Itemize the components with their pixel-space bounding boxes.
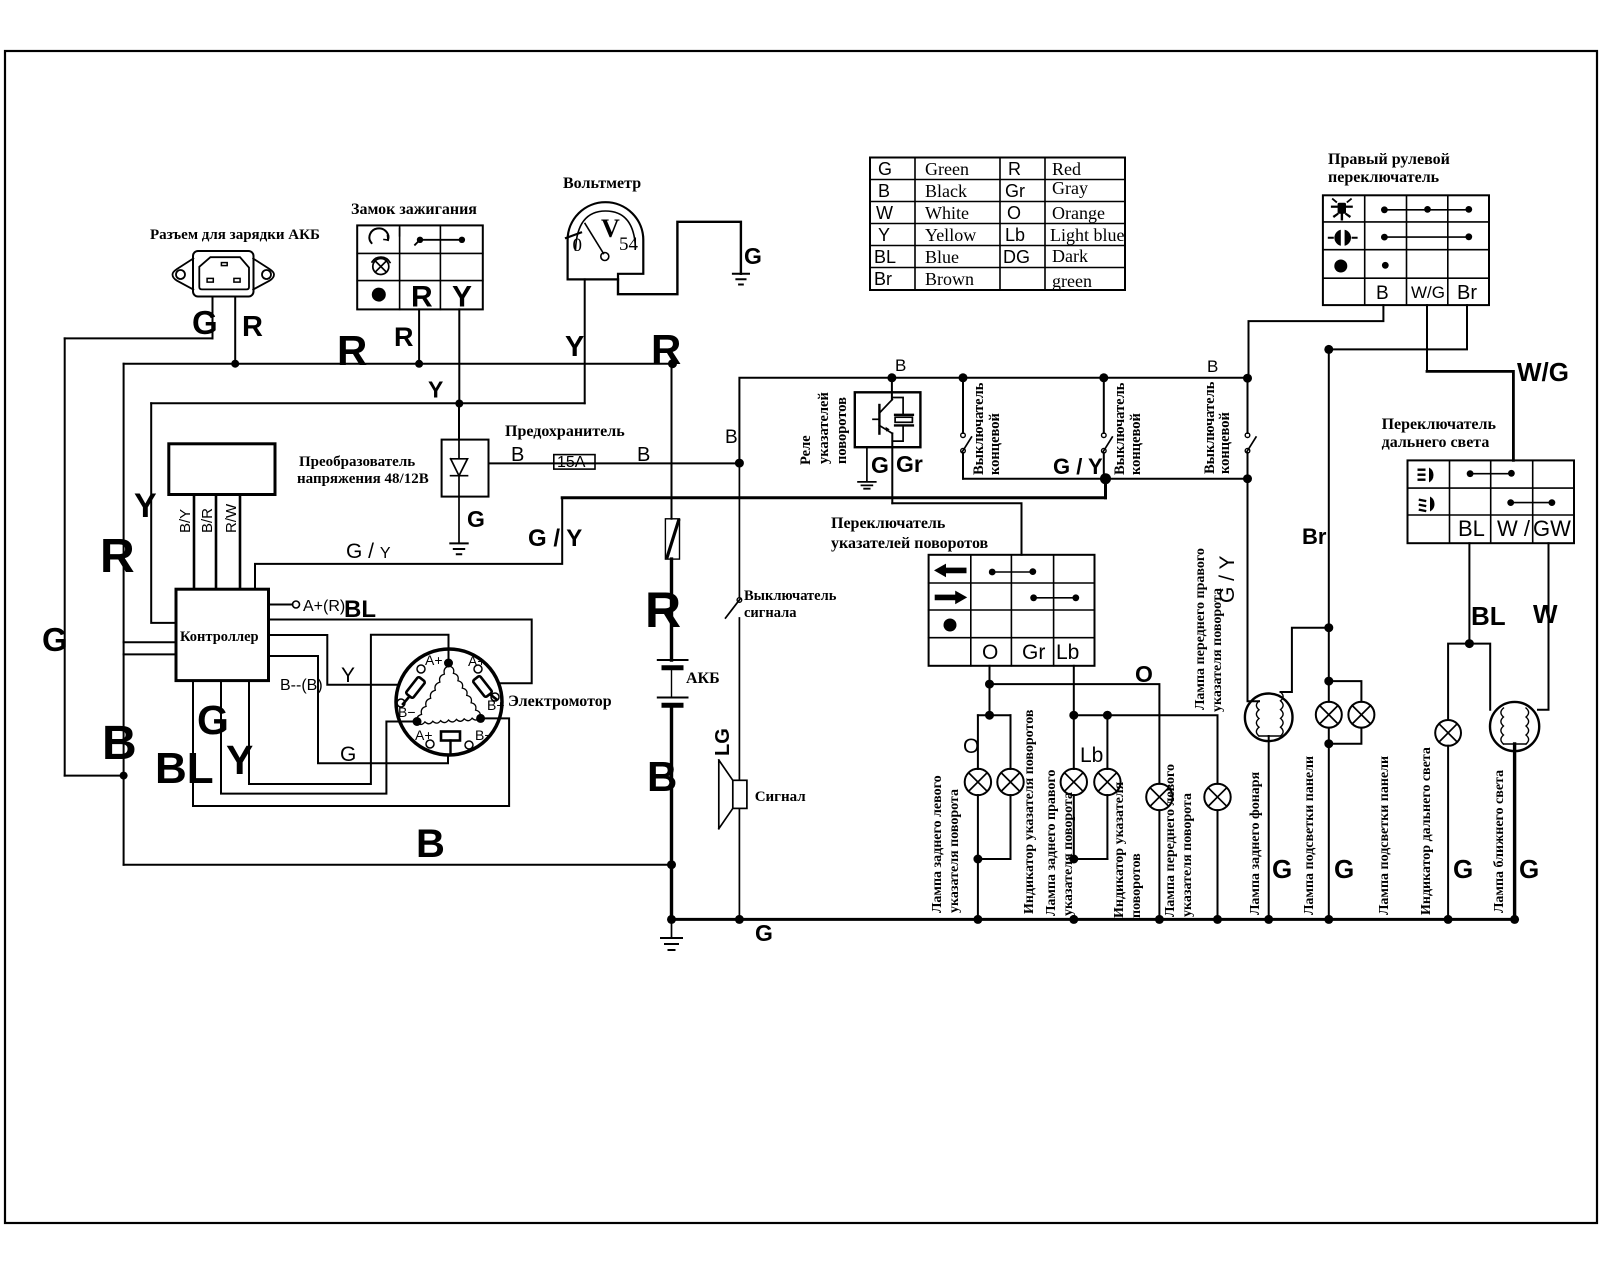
voltmeter tick xyxy=(566,233,581,239)
wire: ignition Y column down to Y line xyxy=(458,309,460,403)
junction dot horn/G bus xyxy=(735,915,744,924)
svg-text:R: R xyxy=(651,326,681,373)
symbol: high beam xyxy=(1418,468,1434,483)
wire: O to front-left lamp xyxy=(990,684,1160,784)
svg-text:BL: BL xyxy=(1471,601,1506,631)
wire: trunk below battery xyxy=(670,705,673,919)
svg-text:Переключатель: Переключатель xyxy=(831,515,946,532)
controller box xyxy=(176,589,269,680)
symbol: off dot xyxy=(944,619,957,632)
motor hall sensor top-left xyxy=(403,676,426,704)
svg-text:GW: GW xyxy=(1533,516,1571,541)
svg-text:B: B xyxy=(878,181,890,201)
svg-text:B−: B− xyxy=(398,704,416,720)
diode D1 xyxy=(451,440,468,497)
svg-text:указателя поворота: указателя поворота xyxy=(1061,792,1076,916)
svg-text:Red: Red xyxy=(1052,159,1081,179)
svg-text:G: G xyxy=(1334,854,1354,884)
svg-text:Dark: Dark xyxy=(1052,246,1088,266)
svg-text:Лампа подсветки панели: Лампа подсветки панели xyxy=(1377,756,1392,915)
junction dot panel branch xyxy=(1324,677,1333,686)
svg-text:G: G xyxy=(1272,854,1292,884)
junction dot G-R xyxy=(120,772,128,780)
svg-text:сигнала: сигнала xyxy=(744,605,797,621)
svg-text:Реле: Реле xyxy=(798,435,814,465)
svg-text:O: O xyxy=(1135,661,1153,687)
wire: BL phase controller to motor B+ xyxy=(193,681,509,806)
lamp: low beam head lamp xyxy=(1490,702,1539,751)
junction dot limit switch 2 xyxy=(1099,373,1108,382)
wire: trunk upper xyxy=(671,364,673,519)
wire: G bus xyxy=(672,918,1515,921)
motor delta winding xyxy=(417,666,481,724)
svg-text:Black: Black xyxy=(925,181,967,201)
lamp: panel light 1 xyxy=(1316,702,1342,728)
svg-text:Lb: Lb xyxy=(1005,225,1025,245)
svg-text:R: R xyxy=(242,311,263,343)
symbol: on position dot xyxy=(372,288,386,302)
svg-text:R: R xyxy=(1008,159,1021,179)
svg-text:переключатель: переключатель xyxy=(1328,169,1440,186)
svg-text:Вольтметр: Вольтметр xyxy=(563,175,641,192)
wire: W/G column xyxy=(1426,305,1428,371)
svg-text:указателей: указателей xyxy=(816,392,832,464)
junction dot R bus / trunk xyxy=(668,359,677,368)
svg-text:Лампа переднего левого: Лампа переднего левого xyxy=(1163,764,1178,917)
svg-text:B: B xyxy=(416,822,445,866)
svg-text:указателя поворота: указателя поворота xyxy=(1210,588,1225,712)
wire: rear lamp to G bus xyxy=(1268,736,1270,919)
wire: relay ground lead xyxy=(866,447,868,481)
svg-text:B−: B− xyxy=(475,727,493,743)
contact row1: dot-line-dot xyxy=(419,239,462,241)
wire: panel lamp 2 branch xyxy=(1329,681,1362,702)
symbol: position lamps xyxy=(1328,230,1358,246)
lamp: panel light 2 xyxy=(1348,702,1374,728)
voltmeter scale arc xyxy=(576,211,636,250)
contact row2 xyxy=(1511,502,1552,504)
pair1 bottom bar xyxy=(978,858,1011,860)
svg-text:B/R: B/R xyxy=(199,508,216,533)
wire: indicator to G bus xyxy=(1447,746,1449,920)
wire: B--(B) controller to motor bottom xyxy=(269,656,449,763)
svg-text:Br: Br xyxy=(1302,524,1327,549)
wire: BL to low beam lamp xyxy=(1469,644,1490,710)
wire: G/Y drop thick xyxy=(1104,479,1107,498)
wire: diode to fuse to trunk B xyxy=(489,462,740,464)
relay internal capacitor/crystal xyxy=(892,398,913,442)
junction dot trunk/G bus xyxy=(667,915,676,924)
svg-text:дальнего света: дальнего света xyxy=(1382,434,1490,451)
contact row2 xyxy=(1034,597,1076,599)
svg-text:Gr: Gr xyxy=(896,451,923,477)
svg-text:поворотов: поворотов xyxy=(834,397,850,464)
motor M1 outline xyxy=(396,649,502,755)
lamp: front right turn xyxy=(1204,784,1230,810)
wire: B bus bottom horizontal xyxy=(124,864,672,866)
svg-text:указателей поворотов: указателей поворотов xyxy=(831,535,989,552)
svg-text:Выключатель: Выключатель xyxy=(971,382,987,475)
motor hall sensor bottom xyxy=(441,732,460,741)
wire: Br column elbow xyxy=(1329,305,1467,349)
svg-text:R: R xyxy=(645,582,681,638)
lamp: rear left turn xyxy=(977,715,979,919)
junction dot ignition Y xyxy=(455,400,463,408)
wire R/W converter-controller xyxy=(239,495,242,590)
svg-text:поворотов: поворотов xyxy=(1129,853,1144,918)
svg-text:B: B xyxy=(895,356,906,375)
svg-text:Разъем для зарядки АКБ: Разъем для зарядки АКБ xyxy=(150,227,320,243)
svg-text:Gr: Gr xyxy=(1022,641,1045,664)
svg-text:Gray: Gray xyxy=(1052,178,1088,198)
wire: BL column down xyxy=(1468,543,1470,643)
pair2 top bar to front-right lamp xyxy=(1074,715,1218,784)
fuse 15A xyxy=(554,455,595,470)
svg-text:Y: Y xyxy=(878,225,890,245)
svg-text:G: G xyxy=(1453,854,1473,884)
wire: horn wire upper xyxy=(738,463,740,597)
wire: Y horizontal line xyxy=(151,402,585,404)
svg-text:Предохранитель: Предохранитель xyxy=(505,423,625,440)
svg-text:A+(R): A+(R) xyxy=(303,598,345,615)
connector J1 (charging socket) xyxy=(173,251,275,297)
svg-text:Br: Br xyxy=(874,269,892,289)
svg-text:G: G xyxy=(871,452,889,478)
wire: Y phase controller to motor top xyxy=(249,635,449,784)
junction dot O split xyxy=(985,680,994,689)
wire: BL to high beam indicator xyxy=(1448,644,1469,720)
svg-text:Лампа переднего правого: Лампа переднего правого xyxy=(1193,548,1208,710)
wire: G/Y to rear lamp xyxy=(1248,479,1260,702)
svg-text:Переключатель: Переключатель xyxy=(1382,416,1497,433)
ground (voltmeter) xyxy=(733,274,749,285)
ground (diode) xyxy=(450,543,467,554)
horn speaker xyxy=(719,760,747,829)
svg-text:Выключатель: Выключатель xyxy=(1112,382,1128,475)
svg-text:O: O xyxy=(1007,203,1021,223)
svg-text:B: B xyxy=(725,427,738,448)
svg-text:G: G xyxy=(467,506,485,532)
ground (relay) xyxy=(858,482,876,489)
svg-text:Лампа подсветки панели: Лампа подсветки панели xyxy=(1302,756,1317,915)
wire: connector G pin down xyxy=(212,297,214,338)
symbol: right arrow xyxy=(935,591,968,605)
pair2 bottom bar xyxy=(1074,858,1108,860)
svg-text:Gr: Gr xyxy=(1005,181,1025,201)
svg-text:B: B xyxy=(511,444,524,466)
svg-text:O: O xyxy=(963,735,979,758)
lamp: front left turn xyxy=(1146,784,1172,810)
svg-text:G / Y: G / Y xyxy=(1053,454,1103,479)
svg-text:G / Y: G / Y xyxy=(528,525,582,552)
turn signal switch table xyxy=(929,555,1095,666)
horn switch SA xyxy=(737,598,742,603)
svg-text:G: G xyxy=(1519,854,1539,884)
wire: left vertical x=123.6 from R bus to B bus xyxy=(123,364,125,865)
symbol: off dot xyxy=(1334,260,1347,273)
svg-text:B: B xyxy=(102,717,137,770)
svg-text:Y: Y xyxy=(452,281,472,314)
svg-text:Лампа ближнего света: Лампа ближнего света xyxy=(1492,770,1507,913)
svg-text:B--(B): B--(B) xyxy=(280,677,323,694)
svg-text:W/G: W/G xyxy=(1411,283,1445,302)
limit switch SQ1 xyxy=(961,378,972,479)
wire: G bottom elbow to junction xyxy=(65,775,124,777)
svg-text:V: V xyxy=(601,214,620,243)
svg-text:0: 0 xyxy=(573,235,583,256)
junction dot xyxy=(231,360,239,368)
wire: Lb output xyxy=(1073,666,1075,715)
svg-text:Y: Y xyxy=(226,737,253,783)
wire: BL sensor controller to motor xyxy=(269,620,532,684)
wire: G phase controller to motor B- xyxy=(221,681,413,794)
svg-text:54: 54 xyxy=(619,234,639,255)
converter box xyxy=(169,444,275,495)
svg-text:R: R xyxy=(100,530,135,583)
relay internal transistor xyxy=(873,400,892,434)
junction dot trunk/B bus xyxy=(667,860,676,869)
lamp: rear right turn xyxy=(1073,715,1075,859)
pair1 top bar xyxy=(978,714,1011,716)
svg-text:B+: B+ xyxy=(487,697,505,713)
svg-text:O: O xyxy=(982,641,998,664)
junction dot Br rear lamp xyxy=(1324,623,1333,632)
symbol: lamp off (crossed bulb) xyxy=(372,257,390,274)
wire: voltmeter to ground xyxy=(618,222,741,294)
wire: Y line to diode box xyxy=(458,404,460,440)
terminal A+(R) xyxy=(269,604,293,606)
wire: W column down xyxy=(1538,543,1549,710)
wire: G/Y thick horizontal xyxy=(562,496,1105,499)
symbol: headlight star xyxy=(1331,199,1353,220)
svg-text:G: G xyxy=(192,304,218,341)
lamp: high beam indicator xyxy=(1435,720,1461,746)
svg-text:BL: BL xyxy=(1458,516,1485,541)
limit switch SQ2 xyxy=(1102,378,1113,479)
svg-text:B: B xyxy=(647,753,677,800)
junction dot limit switch 3 xyxy=(1243,374,1252,383)
svg-text:Light blue: Light blue xyxy=(1050,225,1125,245)
wire: W/G thick to high-beam switch xyxy=(1427,371,1513,460)
svg-text:Brown: Brown xyxy=(925,269,974,289)
junction dot sw3 bottom xyxy=(1243,474,1252,483)
svg-text:R: R xyxy=(337,327,367,374)
voltmeter pivot xyxy=(601,253,609,261)
symbol: key rotate arc xyxy=(369,228,388,243)
wire: trunk ground stub xyxy=(671,919,673,937)
svg-text:Y: Y xyxy=(341,664,355,687)
motor phase terminals xyxy=(444,659,453,668)
svg-text:G: G xyxy=(878,159,892,179)
svg-text:G: G xyxy=(42,621,68,658)
contact row2 xyxy=(1384,236,1468,238)
svg-text:BL: BL xyxy=(874,247,896,267)
wire: relay Gr output to turn switch xyxy=(892,503,1021,555)
wire: G/Y elbow to controller xyxy=(255,498,562,589)
svg-text:Лампа заднего правого: Лампа заднего правого xyxy=(1044,770,1059,916)
wire: low beam lamp to G bus thick xyxy=(1513,744,1516,919)
svg-text:Br: Br xyxy=(1457,282,1477,304)
wire: relay feed vertical xyxy=(891,378,893,503)
svg-text:green: green xyxy=(1052,271,1092,291)
wire: diode ground lead xyxy=(458,497,460,544)
svg-text:B: B xyxy=(1376,283,1389,304)
main switch / fuse on trunk xyxy=(665,519,679,559)
wire: O output xyxy=(989,666,991,715)
junction dot panel join xyxy=(1324,739,1333,748)
svg-text:Индикатор указателя поворотов: Индикатор указателя поворотов xyxy=(1022,709,1037,914)
wire B/Y converter-controller xyxy=(193,495,196,590)
svg-text:A+: A+ xyxy=(425,652,443,668)
svg-text:15A: 15A xyxy=(557,454,586,471)
junction dot G/Y big xyxy=(1100,473,1111,484)
svg-text:A+: A+ xyxy=(468,653,486,669)
svg-text:W: W xyxy=(876,203,893,223)
wire: Y left vertical down to controller xyxy=(151,403,176,623)
wire: controller feed stub 2 xyxy=(124,653,176,655)
contact row1 (3 dots line) xyxy=(1384,209,1468,211)
junction dot B wire / horn xyxy=(735,459,744,468)
wire: trunk to battery xyxy=(670,559,673,660)
svg-text:A+: A+ xyxy=(415,727,433,743)
svg-text:W /: W / xyxy=(1497,516,1531,541)
wire: B column to B bus xyxy=(1249,305,1384,378)
wire: upper B bus xyxy=(739,378,1247,463)
symbol: left arrow xyxy=(934,564,967,578)
svg-text:B: B xyxy=(637,444,650,466)
svg-text:указателя поворота: указателя поворота xyxy=(947,789,962,913)
wire: connector R pin down to R bus xyxy=(234,297,236,364)
right steering switch table xyxy=(1323,195,1489,305)
contact row1 xyxy=(1470,473,1511,475)
lamp: turn indicator 1 xyxy=(1010,715,1012,859)
motor hall sensor top-right xyxy=(472,675,496,699)
wire: voltmeter Y down xyxy=(584,279,586,403)
wire: motor bottom stub xyxy=(449,741,451,756)
svg-text:Y: Y xyxy=(565,331,584,363)
color table codes xyxy=(874,159,1030,289)
wire: Br to panel lamps xyxy=(1328,628,1330,702)
limit switch SQ3 xyxy=(1245,378,1256,479)
svg-text:Blue: Blue xyxy=(925,247,959,267)
ignition lock switch table xyxy=(357,225,483,309)
junction dot limit switch 1 xyxy=(959,373,968,382)
svg-text:B: B xyxy=(1207,357,1218,376)
junction dot pair1 top xyxy=(985,711,994,720)
wire: G horizontal to left xyxy=(65,337,213,339)
junction dot relay feed xyxy=(887,373,896,382)
junction dot Lb split xyxy=(1069,711,1078,720)
svg-text:R/W: R/W xyxy=(223,503,240,533)
high beam switch table xyxy=(1408,460,1575,543)
junction dot BL split xyxy=(1465,639,1474,648)
symbol: low beam xyxy=(1419,497,1435,513)
svg-text:R: R xyxy=(394,322,414,352)
svg-text:LG: LG xyxy=(712,728,734,756)
contact row1 xyxy=(992,571,1033,573)
wire: G long left vertical xyxy=(64,338,66,775)
svg-text:Лампа заднего левого: Лампа заднего левого xyxy=(930,775,945,913)
svg-text:Лампа заднего фонаря: Лампа заднего фонаря xyxy=(1248,771,1263,915)
svg-text:Правый рулевой: Правый рулевой xyxy=(1328,151,1450,168)
svg-text:G: G xyxy=(744,243,762,269)
svg-text:указателя поворота: указателя поворота xyxy=(1180,793,1195,917)
svg-text:АКБ: АКБ xyxy=(686,670,720,687)
svg-text:White: White xyxy=(925,203,969,223)
svg-text:Orange: Orange xyxy=(1052,203,1105,223)
wire: limit switch bottom link xyxy=(963,478,1248,480)
svg-text:Индикатор указателя: Индикатор указателя xyxy=(1112,781,1127,918)
svg-text:Контроллер: Контроллер xyxy=(180,629,259,645)
battery AKB xyxy=(658,660,688,705)
wire: controller feed stub 1 xyxy=(124,641,176,643)
lamp: rear light (dual filament) xyxy=(1245,694,1293,742)
svg-text:концевой: концевой xyxy=(1128,413,1144,475)
voltmeter body xyxy=(568,202,644,279)
voltmeter needle xyxy=(585,224,604,254)
svg-text:R: R xyxy=(411,281,433,314)
svg-text:G: G xyxy=(340,743,356,766)
color table names xyxy=(925,159,1125,291)
svg-text:Y: Y xyxy=(428,377,443,403)
wire: panel lamps join xyxy=(1329,728,1362,920)
svg-text:B/Y: B/Y xyxy=(177,509,194,533)
wire B/R converter-controller xyxy=(215,495,218,590)
svg-text:концевой: концевой xyxy=(1217,412,1233,474)
wire: Br long vertical xyxy=(1328,349,1330,627)
svg-text:Lb: Lb xyxy=(1080,744,1103,767)
svg-text:Индикатор дальнего света: Индикатор дальнего света xyxy=(1419,747,1434,915)
diode box (converter rectifier) xyxy=(442,440,489,497)
wire: main R bus horizontal xyxy=(124,363,673,365)
svg-text:Выключатель: Выключатель xyxy=(744,588,837,604)
svg-text:DG: DG xyxy=(1003,247,1030,267)
wire: ignition R column down to R bus xyxy=(418,309,420,363)
svg-text:концевой: концевой xyxy=(987,413,1003,475)
contact row3 xyxy=(1382,262,1389,269)
svg-text:W/G: W/G xyxy=(1517,357,1569,387)
wire: horn wire lower xyxy=(738,618,740,919)
svg-text:напряжения 48/12В: напряжения 48/12В xyxy=(297,471,429,487)
svg-text:Green: Green xyxy=(925,159,969,179)
svg-text:G: G xyxy=(197,697,229,743)
ground (main) xyxy=(661,938,682,950)
svg-text:Выключатель: Выключатель xyxy=(1202,381,1218,474)
relay box K1 xyxy=(855,392,921,447)
svg-text:G: G xyxy=(755,920,773,946)
svg-text:Yellow: Yellow xyxy=(925,225,976,245)
motor sensor circles xyxy=(397,665,499,749)
wire: Y sensor controller to motor xyxy=(269,635,399,685)
svg-text:Замок зажигания: Замок зажигания xyxy=(351,201,477,218)
wire: Br branch to rear lamp xyxy=(1281,628,1329,692)
svg-text:Y: Y xyxy=(134,487,157,525)
svg-text:Преобразователь: Преобразователь xyxy=(299,454,415,470)
svg-text:Lb: Lb xyxy=(1056,641,1079,664)
lamp: turn indicator 2 xyxy=(1106,715,1108,859)
svg-text:W: W xyxy=(1533,599,1558,629)
svg-text:Электромотор: Электромотор xyxy=(508,693,612,710)
svg-text:BL: BL xyxy=(155,744,214,793)
junction dot Br xyxy=(1324,345,1333,354)
svg-text:Сигнал: Сигнал xyxy=(755,789,807,805)
